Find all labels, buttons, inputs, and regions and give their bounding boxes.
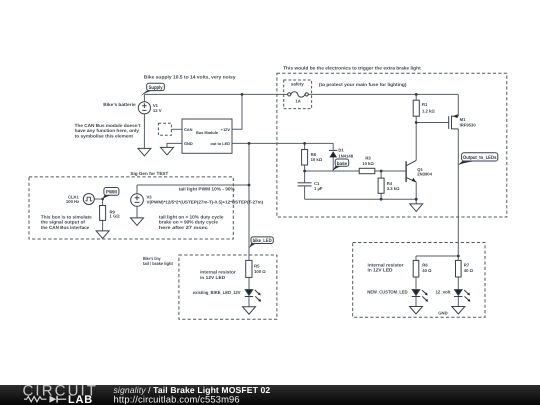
flag Supply <box>141 83 165 96</box>
CAN dashed element box <box>158 123 171 135</box>
ground below R9 <box>96 231 109 239</box>
dashed box custom LEDs <box>353 243 485 318</box>
ground below NEW_CUSTOM_LED <box>410 307 423 315</box>
svg-text:This box is to simulate: This box is to simulate <box>41 214 92 219</box>
resistor R8 <box>302 150 308 166</box>
wire R5 to LED <box>248 277 250 289</box>
LED NEW_CUSTOM_LED <box>412 290 428 302</box>
label R5 value <box>254 263 266 274</box>
wire V3 top <box>136 185 138 194</box>
transistor Q1 <box>406 160 416 182</box>
svg-text:GND: GND <box>184 141 193 146</box>
svg-text:100 Ω: 100 Ω <box>254 269 266 274</box>
svg-text:1 GΩ: 1 GΩ <box>110 214 121 219</box>
diode D1 <box>329 150 337 157</box>
wire M1 source <box>457 94 459 116</box>
resistor R5 <box>246 260 252 277</box>
resistor R4 <box>378 178 384 193</box>
svg-text:LAB: LAB <box>68 394 93 405</box>
wire R1 bottom to gate node <box>415 116 417 122</box>
resistor R1 <box>413 100 419 116</box>
svg-text:Supply: Supply <box>149 85 163 91</box>
wire V1 top <box>143 94 145 101</box>
wire top rail left <box>144 93 287 95</box>
wire out-to-LED rail <box>232 142 333 144</box>
wire R1 top <box>415 94 417 100</box>
wire R6 to LED <box>415 277 417 290</box>
svg-text:http://circuitlab.com/c553m96: http://circuitlab.com/c553m96 <box>114 393 240 404</box>
svg-text:tail light PWM 10% - 90%: tail light PWM 10% - 90% <box>179 187 235 192</box>
dashed box electronics trigger <box>277 73 507 217</box>
wire D1 bottom <box>332 157 334 171</box>
svg-text:the signal output of: the signal output of <box>41 220 86 225</box>
label M1 value <box>460 117 477 127</box>
svg-text:40 Ω: 40 Ω <box>422 268 432 273</box>
voltage source V3 <box>131 194 144 207</box>
ground below Q1 emitter <box>410 204 423 212</box>
svg-text:base: base <box>337 161 347 167</box>
label R4 value <box>387 181 400 191</box>
svg-text:GND: GND <box>438 310 447 315</box>
svg-text:12 V: 12 V <box>153 108 162 113</box>
wire M1 drain down <box>457 129 459 256</box>
label V3 value <box>147 195 264 205</box>
wire top rail right <box>308 93 458 95</box>
logo resistor diode glyph <box>24 397 66 402</box>
svg-text:Bike supply 10.5 to 14 volts,: Bike supply 10.5 to 14 volts, very noisy <box>144 74 236 79</box>
resistor R9 <box>100 206 106 221</box>
wire R8 top <box>304 143 306 149</box>
svg-text:bike_LED: bike_LED <box>253 238 272 244</box>
wire Q1 ground stub <box>415 199 417 204</box>
wire R9 bottom <box>102 220 104 231</box>
svg-text:3.3 kΩ: 3.3 kΩ <box>387 186 400 191</box>
svg-text:IRF9530: IRF9530 <box>460 122 477 127</box>
svg-text:1.2 kΩ: 1.2 kΩ <box>422 108 435 113</box>
resistor R6 <box>413 260 419 277</box>
wire R7 top <box>457 256 459 260</box>
label Q1 value <box>417 167 432 177</box>
wire gate horizontal <box>416 122 449 124</box>
ground below V1 <box>138 148 151 156</box>
wire bottom rail <box>305 198 417 200</box>
svg-text:12_volt: 12_volt <box>436 290 451 295</box>
wire Q1 emitter down <box>415 182 417 199</box>
svg-text:to symbolise this element: to symbolise this element <box>75 133 134 138</box>
svg-text:R1: R1 <box>422 102 428 107</box>
svg-text:existing_BIKE_LED_12V: existing_BIKE_LED_12V <box>193 290 241 295</box>
wire R7 to LED <box>457 277 459 290</box>
wire +12V branch <box>232 94 242 129</box>
ground below 12_volt LED <box>452 307 465 315</box>
wire R3 right to Q1 base <box>375 170 406 172</box>
wire base rail <box>305 170 360 172</box>
ground below existing LED <box>243 307 256 315</box>
label V1 value <box>153 103 162 113</box>
dashed box safety <box>284 80 312 109</box>
label D1 value <box>338 148 353 159</box>
wire LED2 cathode to ground <box>457 297 459 307</box>
annotation texts <box>41 66 451 295</box>
Bus Module box <box>182 119 232 153</box>
svg-text:Output_to_LEDs: Output_to_LEDs <box>463 155 497 161</box>
svg-text:Sig Gen for TEST: Sig Gen for TEST <box>130 171 168 176</box>
label C1 value <box>314 181 323 191</box>
svg-text:+12V: +12V <box>221 127 231 132</box>
svg-text:Bike’s batterie: Bike’s batterie <box>103 102 136 107</box>
svg-text:1A: 1A <box>295 98 300 103</box>
flag base <box>332 159 349 171</box>
resistor R3 <box>359 168 375 173</box>
wire V3 output horizontal <box>137 184 249 186</box>
label R9 value <box>110 209 121 218</box>
wire C1 bottom <box>304 186 306 199</box>
wire R6 branch <box>416 255 458 257</box>
wire R4 top <box>380 171 382 178</box>
flag Output_to_LEDs <box>458 153 498 165</box>
svg-text:2N3904: 2N3904 <box>417 172 432 177</box>
svg-text:NEW_CUSTOM_LED: NEW_CUSTOM_LED <box>367 290 408 295</box>
label R1 value <box>422 102 435 113</box>
svg-text:V(PWM)*12/5*2*(USTEP(27m-T)-0.: V(PWM)*12/5*2*(USTEP(27m-T)-0.5)+12*USTE… <box>147 200 264 205</box>
wire R8 bottom <box>304 165 306 171</box>
label CLK1 <box>66 195 80 204</box>
label R8 value <box>311 152 323 162</box>
wire C1 top <box>304 171 306 182</box>
voltage source V1 <box>138 102 150 114</box>
svg-text:in 12V LED: in 12V LED <box>200 275 226 280</box>
svg-text:10 kΩ: 10 kΩ <box>311 157 323 162</box>
wire R6 top <box>415 256 417 260</box>
wire V1 bottom to ground <box>143 114 145 148</box>
wire bike_LED branch vertical <box>248 143 250 260</box>
mosfet M1 <box>449 114 459 129</box>
svg-text:This would be the electronics: This would be the electronics to trigger… <box>283 66 421 71</box>
svg-text:CAN: CAN <box>184 127 193 132</box>
dashed box bike taillight <box>179 255 277 319</box>
svg-text:R7: R7 <box>464 262 470 267</box>
svg-text:100 Hz: 100 Hz <box>66 199 79 204</box>
svg-text:40 Ω: 40 Ω <box>464 268 474 273</box>
wire GND pin stub <box>167 143 182 147</box>
svg-text:R6: R6 <box>422 262 428 267</box>
Bus Module pin labels <box>184 127 230 146</box>
wire existing LED cathode to ground <box>248 297 250 307</box>
capacitor C1 <box>298 183 312 186</box>
clock source CLK1 <box>83 194 94 205</box>
wire CAN pin stub <box>171 128 182 130</box>
svg-text:Bus Module: Bus Module <box>196 130 219 135</box>
LED 12_volt <box>454 290 470 302</box>
footer bar <box>0 385 540 405</box>
ground below V3 <box>131 218 144 226</box>
label R3 value <box>362 156 374 166</box>
LED existing_BIKE_LED_12V <box>245 290 261 302</box>
svg-text:PWM: PWM <box>106 189 117 195</box>
dashed box Sig Gen for TEST <box>29 177 233 239</box>
svg-text:the CAN Bus interface: the CAN Bus interface <box>41 225 90 230</box>
svg-text:tail / brake light: tail / brake light <box>143 261 173 266</box>
wire gate node to Q1 collector <box>415 123 417 161</box>
ground below GND pin <box>161 147 174 155</box>
svg-text:safety: safety <box>291 81 304 86</box>
flag bike_LED <box>249 237 273 249</box>
wire CLK1 to R9 node <box>94 199 102 206</box>
wire V3 bottom <box>136 206 138 218</box>
svg-text:in 12V LED: in 12V LED <box>368 268 394 273</box>
flag PWM <box>102 188 119 200</box>
svg-text:(to protect your main fuse for: (to protect your main fuse for lighting) <box>319 82 407 87</box>
svg-text:out to LED: out to LED <box>210 141 230 146</box>
wire LED1 cathode to ground <box>415 297 417 307</box>
fuse F1 1A <box>288 92 309 97</box>
wire D1 top <box>332 143 334 150</box>
wire R4 bottom <box>380 193 382 199</box>
label R6 value <box>422 262 432 272</box>
junction node dots <box>101 93 459 257</box>
svg-text:here after 27 msec: here after 27 msec <box>159 225 209 230</box>
svg-text:1N4148: 1N4148 <box>338 153 353 158</box>
resistor R7 <box>456 260 462 277</box>
svg-text:D1: D1 <box>338 148 344 153</box>
svg-text:10 kΩ: 10 kΩ <box>362 161 374 166</box>
svg-text:R5: R5 <box>254 263 260 268</box>
label R7 value <box>464 262 474 272</box>
svg-text:1 µF: 1 µF <box>314 186 323 191</box>
